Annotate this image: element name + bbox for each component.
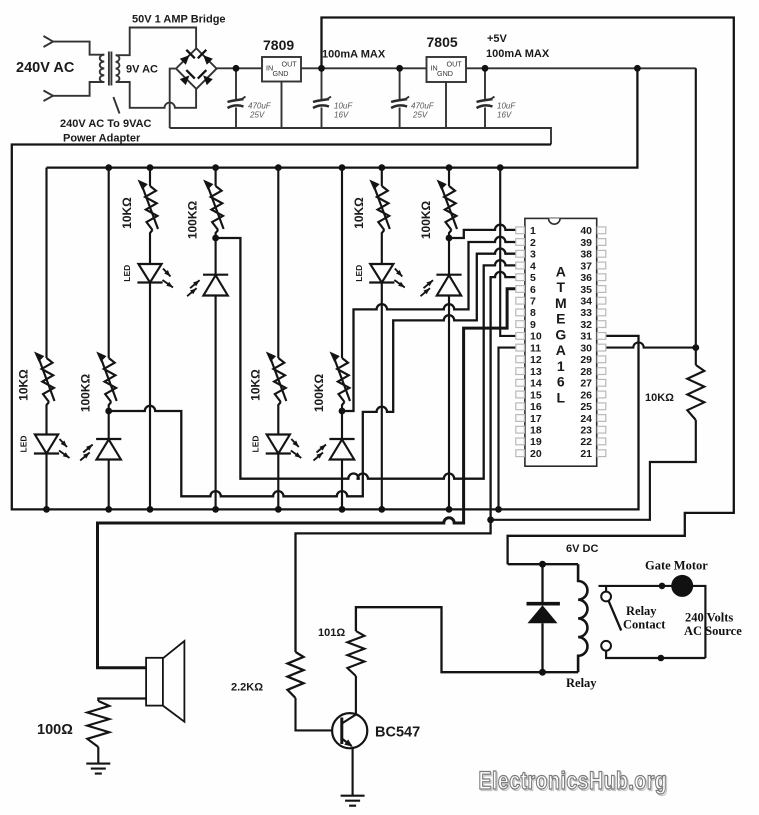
wire 7809 out rail (301, 67, 427, 69)
bridge diode D4 bottom-right (198, 70, 213, 85)
ground transistor (341, 796, 365, 806)
resistor R8 101ohm (318, 627, 364, 676)
svg-text:7: 7 (530, 296, 536, 308)
svg-text:31: 31 (580, 331, 592, 343)
bridge diode D1 top-left (180, 50, 195, 65)
wire feed col5 (277, 168, 279, 358)
resistor LDR4 10K with LED4 (248, 352, 301, 510)
svg-text:18: 18 (530, 425, 542, 437)
svg-text:20: 20 (530, 448, 542, 460)
svg-text:33: 33 (580, 307, 592, 319)
photodiode PD2 with resistor 100K (419, 180, 462, 510)
svg-text:1: 1 (530, 225, 536, 237)
svg-text:50V 1 AMP Bridge: 50V 1 AMP Bridge (132, 14, 226, 26)
wire pin5 to transistor base network (296, 272, 526, 652)
svg-text:LED: LED (250, 436, 260, 453)
svg-text:24: 24 (580, 413, 592, 425)
svg-text:38: 38 (580, 249, 592, 261)
wire bridge minus to ground rail (170, 69, 176, 128)
svg-text:GND: GND (437, 69, 453, 78)
IC U3 ATMEGA16L (516, 218, 606, 466)
label 9V AC (126, 64, 158, 76)
wire PD3 junction to pin3 (109, 249, 525, 497)
wire 7805 gnd (445, 82, 447, 128)
wire transformer secondary top to bridge (116, 28, 196, 56)
photodiode PD3 with resistor 100K (79, 352, 122, 510)
svg-text:6: 6 (557, 374, 565, 390)
wire PD1 junction to pin4 (216, 238, 525, 479)
svg-text:28: 28 (580, 366, 592, 378)
wire collector network (356, 607, 578, 672)
svg-text:8: 8 (530, 307, 536, 319)
svg-text:22: 22 (580, 436, 592, 448)
svg-text:100KΩ: 100KΩ (186, 200, 200, 239)
photodiode PD4 with resistor 100K (312, 352, 355, 510)
svg-text:M: M (555, 295, 567, 311)
regulator U2 7805 (427, 34, 467, 82)
svg-text:25V: 25V (249, 111, 265, 120)
wire pin11 to ground (499, 348, 526, 510)
svg-text:+5V: +5V (487, 33, 508, 45)
svg-text:470uF: 470uF (411, 102, 435, 111)
svg-text:OUT: OUT (447, 60, 463, 69)
wire feed col6 (341, 168, 343, 358)
diode D5 flyback (527, 561, 560, 676)
svg-text:470uF: 470uF (248, 102, 272, 111)
svg-text:37: 37 (580, 260, 592, 272)
svg-text:12: 12 (530, 354, 542, 366)
wire contact top to motor (599, 583, 706, 658)
svg-text:9V AC: 9V AC (126, 64, 158, 76)
photodiode PD1 with resistor 100K (186, 180, 229, 510)
wire feed col7 (381, 168, 383, 186)
svg-text:Relay: Relay (566, 676, 597, 690)
wire feed col1 (45, 168, 47, 358)
svg-text:11: 11 (530, 342, 541, 354)
wire +5V sensor bus (47, 68, 638, 167)
svg-text:32: 32 (580, 319, 592, 331)
label 100mA MAX (322, 49, 386, 61)
svg-text:15: 15 (530, 389, 542, 401)
svg-text:Relay: Relay (626, 604, 657, 618)
svg-text:LED: LED (354, 265, 364, 282)
svg-text:13: 13 (530, 366, 542, 378)
ground rail psu (170, 128, 551, 145)
wire speaker to 100ohm (98, 699, 146, 702)
svg-text:25: 25 (580, 401, 592, 413)
svg-text:10uF: 10uF (497, 102, 516, 111)
AC plug prong top (44, 36, 105, 55)
relay coil K1 (508, 564, 598, 690)
svg-text:240V AC To 9VAC: 240V AC To 9VAC (60, 118, 152, 130)
svg-text:10KΩ: 10KΩ (248, 369, 262, 401)
svg-text:27: 27 (580, 378, 592, 390)
wire 7809 gnd (281, 82, 283, 129)
svg-text:16V: 16V (334, 111, 349, 120)
relay contact switch (601, 592, 666, 651)
svg-text:LED: LED (122, 265, 132, 282)
svg-text:10: 10 (530, 331, 542, 343)
wire +5V down to AVCC node (695, 68, 697, 347)
svg-text:5: 5 (530, 272, 536, 284)
svg-text:AC Source: AC Source (684, 624, 742, 638)
label 240V AC (16, 60, 75, 76)
svg-text:10KΩ: 10KΩ (17, 369, 31, 401)
node bus dots (105, 164, 503, 171)
wire feed col3 (149, 168, 151, 186)
svg-text:100Ω: 100Ω (37, 722, 73, 738)
svg-text:A: A (556, 264, 566, 280)
resistor LDR2 10K with LED2 (352, 180, 405, 510)
svg-text:30: 30 (580, 342, 592, 354)
svg-text:BC547: BC547 (375, 725, 420, 741)
label 100mA MAX 2 (486, 48, 550, 60)
svg-text:21: 21 (580, 448, 592, 460)
resistor R7 2.2K (231, 652, 342, 730)
svg-text:1: 1 (557, 358, 565, 374)
svg-text:39: 39 (580, 237, 592, 249)
svg-text:100KΩ: 100KΩ (419, 200, 433, 239)
bridge diode D2 top-right (198, 50, 213, 65)
svg-text:240 Volts: 240 Volts (685, 611, 733, 625)
speaker LS1 (146, 641, 184, 722)
svg-text:Contact: Contact (623, 618, 666, 632)
svg-text:2.2KΩ: 2.2KΩ (231, 682, 263, 694)
motor M1 gate motor (645, 559, 708, 597)
bridge diode D3 bottom-left (180, 70, 195, 85)
svg-text:100KΩ: 100KΩ (312, 373, 326, 412)
svg-text:LED: LED (19, 436, 29, 453)
svg-text:34: 34 (580, 296, 592, 308)
svg-text:7809: 7809 (263, 37, 294, 53)
svg-text:35: 35 (580, 284, 592, 296)
resistor LDR3 10K with LED3 (17, 352, 70, 510)
resistor R5 10K pulldown (487, 348, 704, 524)
wire 9V feed to relay (322, 18, 734, 565)
wire transformer secondary bottom to bridge (116, 82, 196, 108)
svg-text:ElectronicsHub.org: ElectronicsHub.org (479, 767, 668, 795)
wire pin30 to AVCC node (606, 342, 699, 351)
svg-text:10KΩ: 10KΩ (120, 197, 134, 229)
svg-text:10KΩ: 10KΩ (352, 197, 366, 229)
wire feed col2 (108, 168, 110, 358)
svg-text:A: A (556, 342, 566, 358)
svg-text:19: 19 (530, 436, 542, 448)
resistor R6 100ohm (37, 701, 109, 764)
svg-text:40: 40 (580, 225, 592, 237)
svg-text:100KΩ: 100KΩ (79, 373, 93, 412)
regulator U1 7809 (262, 37, 301, 82)
transformer T1 240V-to-9V (100, 52, 120, 86)
svg-text:26: 26 (580, 389, 592, 401)
label 6V DC (566, 543, 598, 555)
wire PD4 junction to pin2 (342, 237, 525, 411)
capacitor C4 10uF 16V (477, 68, 517, 128)
label 240V AC To 9VAC (60, 118, 152, 130)
svg-text:10uF: 10uF (334, 102, 353, 111)
svg-text:100mA MAX: 100mA MAX (486, 48, 550, 60)
svg-text:6: 6 (530, 284, 536, 296)
wire 7805 out +5V rail (466, 67, 696, 69)
node rail dots (233, 65, 641, 72)
label +5V (487, 33, 508, 45)
svg-text:4: 4 (530, 260, 536, 272)
resistor LDR1 10K with LED1 (120, 180, 173, 510)
svg-text:100mA MAX: 100mA MAX (322, 49, 386, 61)
wire bridge plus to 7809 (217, 67, 262, 69)
ground speaker (86, 764, 110, 774)
node ground bus dots (43, 506, 502, 513)
wire feed col8 (448, 168, 450, 186)
AC plug prong bottom (44, 82, 105, 101)
label Power Adapter (63, 133, 141, 145)
capacitor C3 470uF 25V (391, 68, 435, 128)
svg-text:16: 16 (530, 401, 542, 413)
svg-text:T: T (557, 279, 566, 295)
svg-text:GND: GND (273, 69, 289, 78)
svg-text:7805: 7805 (427, 34, 458, 50)
bridge rectifier diamond (176, 48, 217, 89)
capacitor C2 10uF 16V (313, 68, 353, 128)
svg-text:OUT: OUT (282, 60, 298, 69)
svg-text:6V DC: 6V DC (566, 543, 598, 555)
svg-text:23: 23 (580, 425, 592, 437)
svg-text:Power Adapter: Power Adapter (63, 133, 141, 145)
svg-text:L: L (557, 389, 566, 405)
capacitor C1 470uF 25V (228, 68, 272, 128)
wire PD2 junction to pin1 (449, 225, 525, 238)
svg-text:G: G (555, 327, 566, 343)
wire feed col4 (215, 168, 217, 186)
svg-text:29: 29 (580, 354, 592, 366)
watermark ElectronicsHub.org (479, 767, 669, 796)
svg-text:9: 9 (530, 319, 536, 331)
svg-text:Gate Motor: Gate Motor (645, 559, 708, 573)
wire contact bottom (606, 651, 705, 662)
label 50V 1 AMP Bridge (132, 14, 226, 26)
ground ring bus (12, 145, 639, 510)
svg-text:2: 2 (530, 237, 536, 249)
svg-text:17: 17 (530, 413, 542, 425)
svg-text:36: 36 (580, 272, 592, 284)
svg-text:14: 14 (530, 378, 542, 390)
svg-text:240V AC: 240V AC (16, 60, 75, 76)
svg-text:10KΩ: 10KΩ (645, 392, 674, 404)
label 240 Volts AC Source (684, 611, 742, 639)
wire VCC pin10 (500, 168, 525, 336)
callout line power adapter (113, 97, 119, 114)
svg-text:16V: 16V (497, 111, 512, 120)
svg-text:3: 3 (530, 249, 536, 261)
svg-text:101Ω: 101Ω (318, 627, 345, 639)
svg-text:25V: 25V (412, 111, 428, 120)
svg-text:E: E (556, 311, 565, 327)
transistor Q1 BC547 (332, 676, 420, 796)
wire pin6 to speaker (98, 289, 526, 668)
